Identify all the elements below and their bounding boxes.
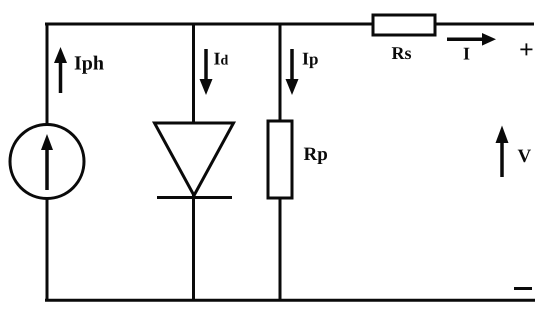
- svg-text:Iph: Iph: [74, 53, 104, 75]
- svg-text:Ip: Ip: [302, 49, 318, 69]
- svg-text:Rp: Rp: [304, 144, 328, 165]
- svg-text:Rs: Rs: [392, 43, 412, 63]
- svg-text:Id: Id: [214, 49, 229, 69]
- svg-text:+: +: [519, 35, 534, 64]
- svg-text:I: I: [463, 44, 470, 64]
- svg-text:V: V: [518, 146, 532, 167]
